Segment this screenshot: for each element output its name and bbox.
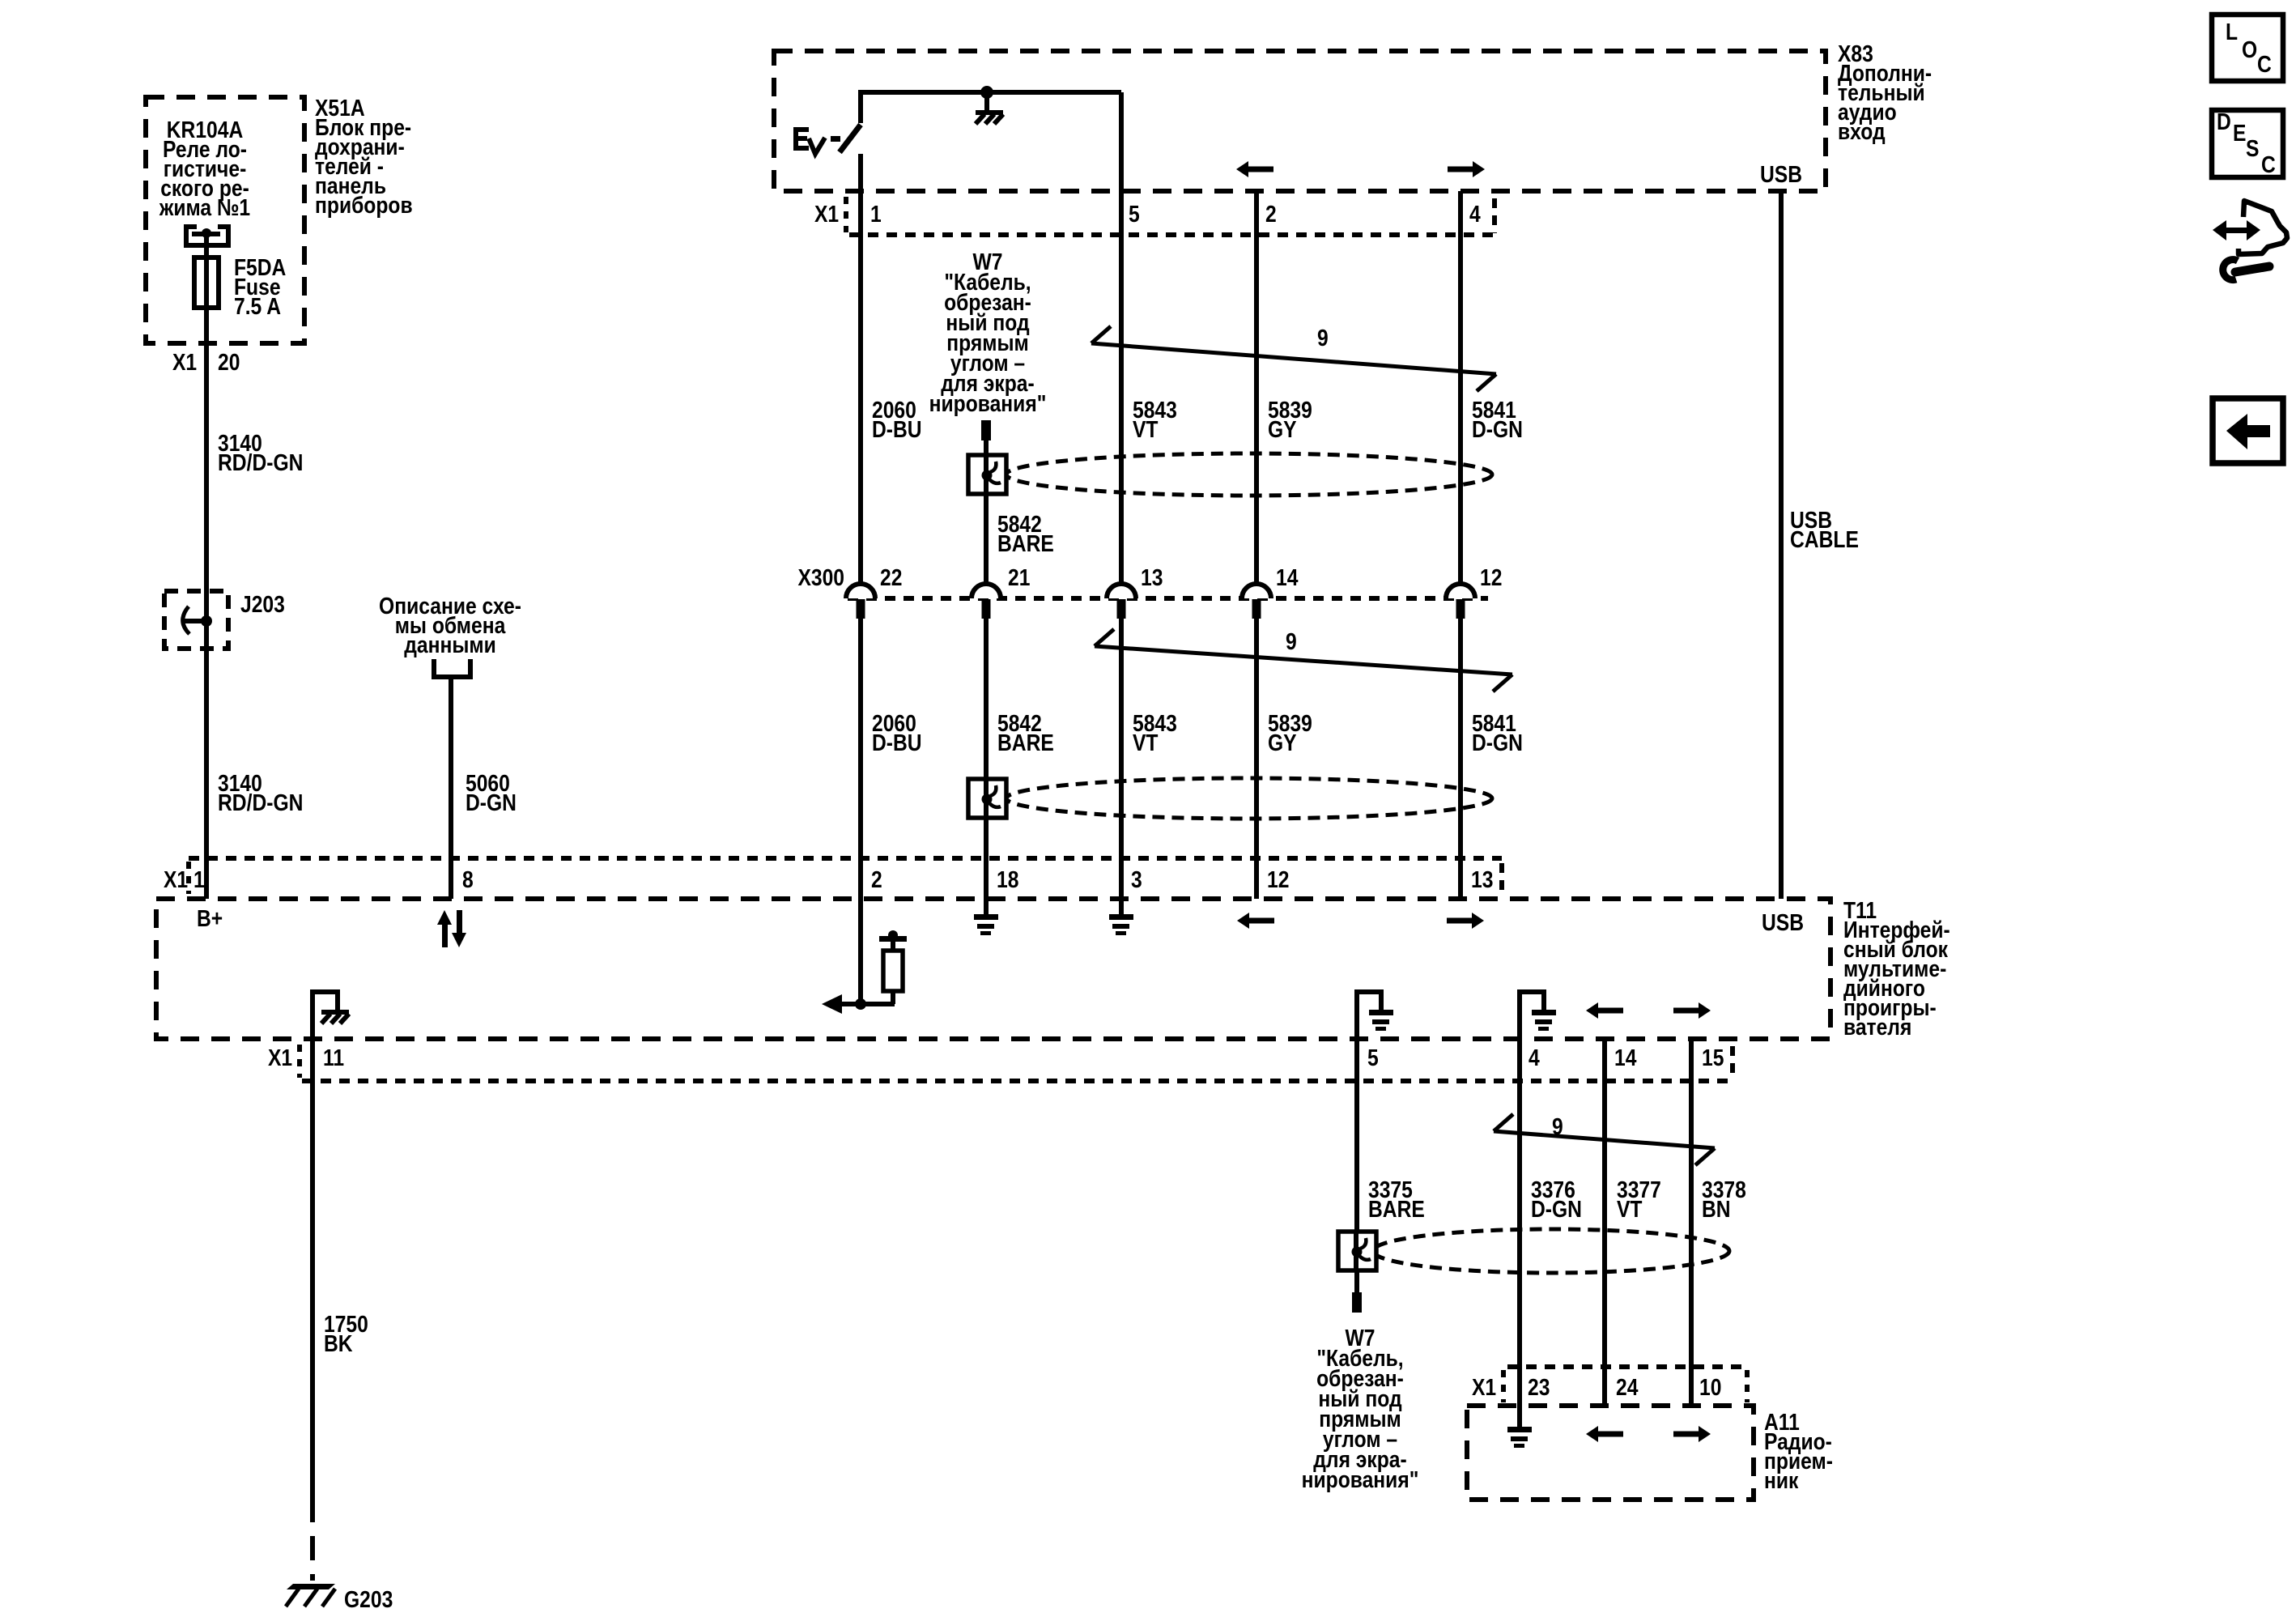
svg-text:BARE: BARE	[997, 730, 1054, 755]
svg-text:21: 21	[1008, 564, 1030, 590]
svg-text:L: L	[2226, 19, 2238, 45]
svg-text:GY: GY	[1268, 416, 1297, 442]
svg-text:1: 1	[870, 201, 882, 227]
shield connection box lower	[1338, 1232, 1376, 1270]
svg-text:BARE: BARE	[1368, 1196, 1425, 1222]
svg-text:15: 15	[1702, 1045, 1724, 1070]
fuse block X51A label	[315, 95, 413, 218]
internal chassis ground inside T11 (left, 1750 circuit)	[313, 992, 349, 1039]
svg-text:GY: GY	[1268, 730, 1297, 755]
svg-text:X1: X1	[172, 349, 197, 375]
arrow left inside A11	[1586, 1426, 1623, 1442]
serial data arrows up/down inside T11	[437, 910, 466, 947]
connector A11 X1 pin row: pins 23 24 10	[1472, 1367, 1747, 1402]
svg-text:D-GN: D-GN	[466, 789, 517, 815]
svg-text:18: 18	[997, 866, 1018, 892]
ground inside A11 under pin 23	[1507, 1406, 1532, 1448]
wire 1750 BK	[313, 1039, 368, 1581]
shield connection box upper	[968, 455, 1006, 494]
svg-text:9: 9	[1286, 628, 1297, 654]
internal ground inside T11 above pin 5	[1357, 992, 1393, 1039]
icon DESC button	[2212, 109, 2283, 177]
svg-text:X1: X1	[164, 866, 188, 892]
svg-text:X300: X300	[797, 564, 844, 590]
svg-text:4: 4	[1469, 201, 1481, 227]
wire 3378 BN (T11 pin15 to A11 pin10)	[1691, 1039, 1746, 1406]
svg-text:24: 24	[1616, 1374, 1638, 1400]
arrow right inside T11 above pin 15	[1673, 1002, 1711, 1019]
svg-text:D-BU: D-BU	[872, 416, 922, 442]
arrow left inside T11 under pin 12	[1237, 913, 1274, 929]
svg-text:BN: BN	[1702, 1196, 1731, 1222]
svg-text:8: 8	[462, 866, 474, 892]
arrow left inside T11 above pin 14	[1586, 1002, 1623, 1019]
svg-text:13: 13	[1141, 564, 1163, 590]
svg-text:12: 12	[1267, 866, 1289, 892]
wire 5841 D-GN (X83 pin4 to X300 pin12)	[1461, 191, 1523, 584]
svg-text:ник: ник	[1764, 1467, 1799, 1493]
svg-text:нирования": нирования"	[929, 390, 1047, 416]
connector X83 X1 pin row: pins 1 5 2 4	[814, 197, 1495, 235]
svg-text:RD/D-GN: RD/D-GN	[218, 789, 303, 815]
internal ground inside T11 above pin 4	[1520, 992, 1556, 1039]
wire USB CABLE	[1781, 191, 1859, 899]
wire 3375 BARE (T11 pin5 shield drain)	[1352, 1039, 1425, 1313]
label W7 shielding cable (upper)	[929, 249, 1047, 416]
svg-text:B+: B+	[197, 905, 223, 931]
module T11 multimedia player interface box	[156, 897, 1950, 1040]
wire 3140 RD/D-GN	[206, 310, 303, 899]
ground inside X83	[976, 86, 1003, 124]
ground G203	[286, 1584, 393, 1612]
svg-text:1: 1	[193, 866, 205, 892]
splice J203	[164, 591, 285, 649]
svg-text:12: 12	[1480, 564, 1502, 590]
svg-text:2: 2	[871, 866, 882, 892]
arrow right inside X83	[1448, 161, 1485, 177]
fuse F5DA 7.5A	[194, 233, 286, 319]
crossing label 9 (middle)	[1095, 628, 1512, 691]
pin X1 20	[172, 349, 240, 375]
wire 5843 VT (X83 pin5 to X300 pin13)	[1121, 92, 1177, 584]
ground inside T11 under pin 3	[1109, 899, 1133, 935]
svg-text:VT: VT	[1617, 1196, 1643, 1222]
arrow left inside X83	[1236, 161, 1273, 177]
svg-text:RD/D-GN: RD/D-GN	[218, 449, 303, 475]
svg-text:D: D	[2217, 109, 2231, 134]
svg-text:2: 2	[1265, 201, 1277, 227]
svg-text:нирования": нирования"	[1302, 1466, 1419, 1492]
icon car diagnostics	[2213, 201, 2287, 280]
svg-text:4: 4	[1529, 1045, 1540, 1070]
svg-text:D-GN: D-GN	[1531, 1196, 1582, 1222]
switch Ev (audio jack detect)	[796, 125, 861, 154]
wire: X83 internal bus	[861, 92, 1121, 123]
svg-text:14: 14	[1276, 564, 1298, 590]
svg-text:C: C	[2261, 151, 2276, 177]
svg-text:данными: данными	[404, 632, 496, 657]
svg-text:E: E	[2233, 120, 2246, 146]
icon LOC button	[2212, 15, 2283, 81]
shield ellipse lower	[1373, 1229, 1729, 1273]
svg-text:22: 22	[880, 564, 902, 590]
wire 3377 VT (T11 pin14 to A11 pin24)	[1605, 1039, 1661, 1406]
svg-text:7.5 A: 7.5 A	[234, 293, 281, 319]
svg-text:VT: VT	[1133, 730, 1159, 755]
svg-text:BARE: BARE	[997, 530, 1054, 556]
svg-text:жима №1: жима №1	[159, 194, 250, 220]
arrow right inside A11	[1673, 1426, 1711, 1442]
wire 5841 D-GN lower segment	[1461, 619, 1523, 899]
arrow right inside T11 under pin 13	[1447, 913, 1484, 929]
svg-text:O: O	[2242, 36, 2257, 62]
svg-text:приборов: приборов	[315, 192, 413, 218]
wire 2060 D-BU (X83 pin1 to X300 pin22)	[861, 154, 922, 584]
radio receiver A11 box	[1467, 1406, 1833, 1500]
wire 3376 D-GN (T11 pin4 to A11 pin23)	[1520, 1039, 1582, 1406]
shield ellipse middle	[1006, 778, 1492, 819]
svg-text:USB: USB	[1760, 161, 1802, 187]
svg-text:14: 14	[1614, 1045, 1636, 1070]
svg-text:10: 10	[1699, 1374, 1721, 1400]
svg-text:3: 3	[1131, 866, 1142, 892]
wire W7 shield drain 5842 BARE upper	[981, 420, 1054, 584]
shield connection box middle	[968, 779, 1006, 818]
resistor network inside T11 on 2060 circuit	[822, 930, 907, 1014]
crossing label 9 (lower)	[1494, 1113, 1715, 1165]
svg-text:20: 20	[218, 349, 240, 375]
wire 5839 GY lower segment	[1256, 619, 1312, 899]
svg-text:5: 5	[1129, 201, 1140, 227]
svg-text:CABLE: CABLE	[1790, 526, 1859, 552]
connector X300 row: pins 22 21 13 14 12	[797, 564, 1502, 619]
svg-text:9: 9	[1317, 325, 1329, 351]
crossing label 9 (upper)	[1091, 325, 1496, 391]
shield ellipse upper	[1006, 453, 1492, 496]
svg-text:9: 9	[1552, 1113, 1563, 1139]
svg-text:D-GN: D-GN	[1472, 730, 1523, 755]
connector T11 X1 bottom pin row: pins 11 5 4 14 15	[268, 1045, 1733, 1081]
wire 5842 BARE lower segment	[986, 619, 1054, 899]
svg-text:G203: G203	[344, 1586, 393, 1612]
svg-text:BK: BK	[324, 1330, 353, 1356]
svg-text:USB: USB	[1762, 909, 1804, 935]
wire 5060 D-GN	[451, 677, 517, 899]
svg-text:вход: вход	[1838, 118, 1886, 144]
svg-text:X1: X1	[1472, 1374, 1496, 1400]
wire 5843 VT lower segment	[1121, 619, 1177, 899]
svg-text:D-GN: D-GN	[1472, 416, 1523, 442]
connector X83 auxiliary audio input box	[774, 40, 1932, 191]
label W7 shielding cable (lower)	[1302, 1325, 1419, 1492]
node: serial data description	[379, 593, 521, 677]
connector T11 X1 top pin row: pins 1 8 2 18 3 12 13	[164, 858, 1502, 894]
svg-text:X1: X1	[268, 1045, 292, 1070]
svg-text:11: 11	[323, 1045, 344, 1070]
svg-text:X1: X1	[814, 201, 839, 227]
relay KR104A box	[146, 97, 304, 343]
svg-text:13: 13	[1471, 866, 1493, 892]
svg-text:вателя: вателя	[1843, 1014, 1911, 1040]
svg-text:D-BU: D-BU	[872, 730, 922, 755]
svg-text:5: 5	[1367, 1045, 1379, 1070]
svg-text:23: 23	[1528, 1374, 1550, 1400]
relay contact terminal	[184, 227, 228, 248]
wire 2060 D-BU lower segment	[861, 619, 922, 1004]
icon back arrow button	[2213, 398, 2283, 463]
svg-text:J203: J203	[240, 591, 285, 617]
svg-text:S: S	[2246, 135, 2259, 161]
wire 5839 GY (X83 pin2 to X300 pin14)	[1256, 191, 1312, 584]
ground inside T11 under pin 18	[974, 899, 998, 935]
svg-text:C: C	[2257, 51, 2272, 77]
svg-text:VT: VT	[1133, 416, 1159, 442]
